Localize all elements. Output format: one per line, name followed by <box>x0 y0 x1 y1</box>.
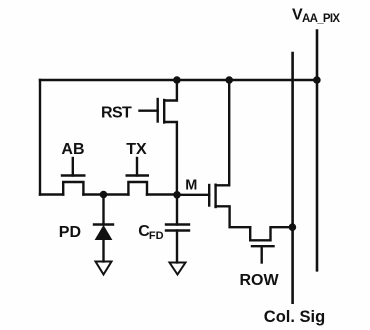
label AB <box>61 141 84 158</box>
wire PD to ground <box>102 240 104 262</box>
wire node M to SF gate <box>177 194 209 196</box>
gate bar TX <box>127 174 148 176</box>
transistor AB <box>63 182 83 195</box>
wire capacitor drop <box>176 195 178 225</box>
label CFD <box>138 223 163 242</box>
label PD <box>59 224 81 241</box>
svg-text:ROW: ROW <box>240 272 280 289</box>
node M dot <box>173 191 181 199</box>
wire SF drain <box>216 80 230 185</box>
wire capacitor to ground <box>176 231 178 263</box>
wire AB to TX <box>83 193 128 195</box>
ground arrow CFD <box>170 263 186 275</box>
wire VAA_PIX vertical <box>316 31 319 271</box>
capacitor CFD top plate <box>166 223 189 225</box>
label RST <box>101 104 132 121</box>
svg-text:PD: PD <box>59 224 81 241</box>
transistor ROW <box>250 227 292 240</box>
svg-text:Col. Sig: Col. Sig <box>264 308 325 326</box>
svg-text:AA_PIX: AA_PIX <box>302 13 340 25</box>
wire PD drop <box>102 195 104 225</box>
label TX <box>126 141 147 158</box>
gate lead ROW <box>261 246 263 262</box>
gate bar SF <box>208 185 210 206</box>
wire bottom row left <box>40 193 63 195</box>
wire TX to node M <box>147 193 177 195</box>
transistor RST channel <box>163 100 165 123</box>
node rail-VAA dot <box>313 76 321 84</box>
node Col. Sig label <box>264 308 325 326</box>
wire left vertical <box>39 80 41 195</box>
photodiode PD cathode bar <box>94 223 113 225</box>
label ROW <box>240 272 280 289</box>
photodiode PD anode triangle <box>96 226 112 240</box>
capacitor CFD bottom plate <box>166 229 189 231</box>
node rail-RST dot <box>173 76 181 84</box>
svg-text:AB: AB <box>61 141 84 158</box>
gate lead RST <box>140 109 158 111</box>
wire SF source <box>216 206 251 227</box>
gate bar ROW <box>252 245 274 247</box>
wire Col Sig vertical <box>291 53 294 303</box>
gate bar AB <box>62 174 84 176</box>
node junction AB-TX-PD <box>100 191 108 199</box>
gate bar RST <box>156 99 158 122</box>
gate lead AB <box>72 158 74 176</box>
wire RST drain <box>164 80 177 101</box>
gate lead TX <box>136 158 138 176</box>
wire RST source to node M <box>164 122 177 195</box>
node ROW-ColSig dot <box>289 223 297 231</box>
svg-text:RST: RST <box>101 104 132 121</box>
transistor TX <box>128 182 147 195</box>
ground arrow PD <box>96 262 112 275</box>
svg-text:M: M <box>185 178 197 194</box>
label M <box>185 178 197 194</box>
wire top rail <box>40 79 317 81</box>
svg-text:TX: TX <box>126 141 147 158</box>
node rail-SF dot <box>225 76 233 84</box>
transistor SF channel <box>214 185 216 207</box>
svg-text:FD: FD <box>149 230 164 242</box>
net VAA_PIX label <box>292 6 340 25</box>
